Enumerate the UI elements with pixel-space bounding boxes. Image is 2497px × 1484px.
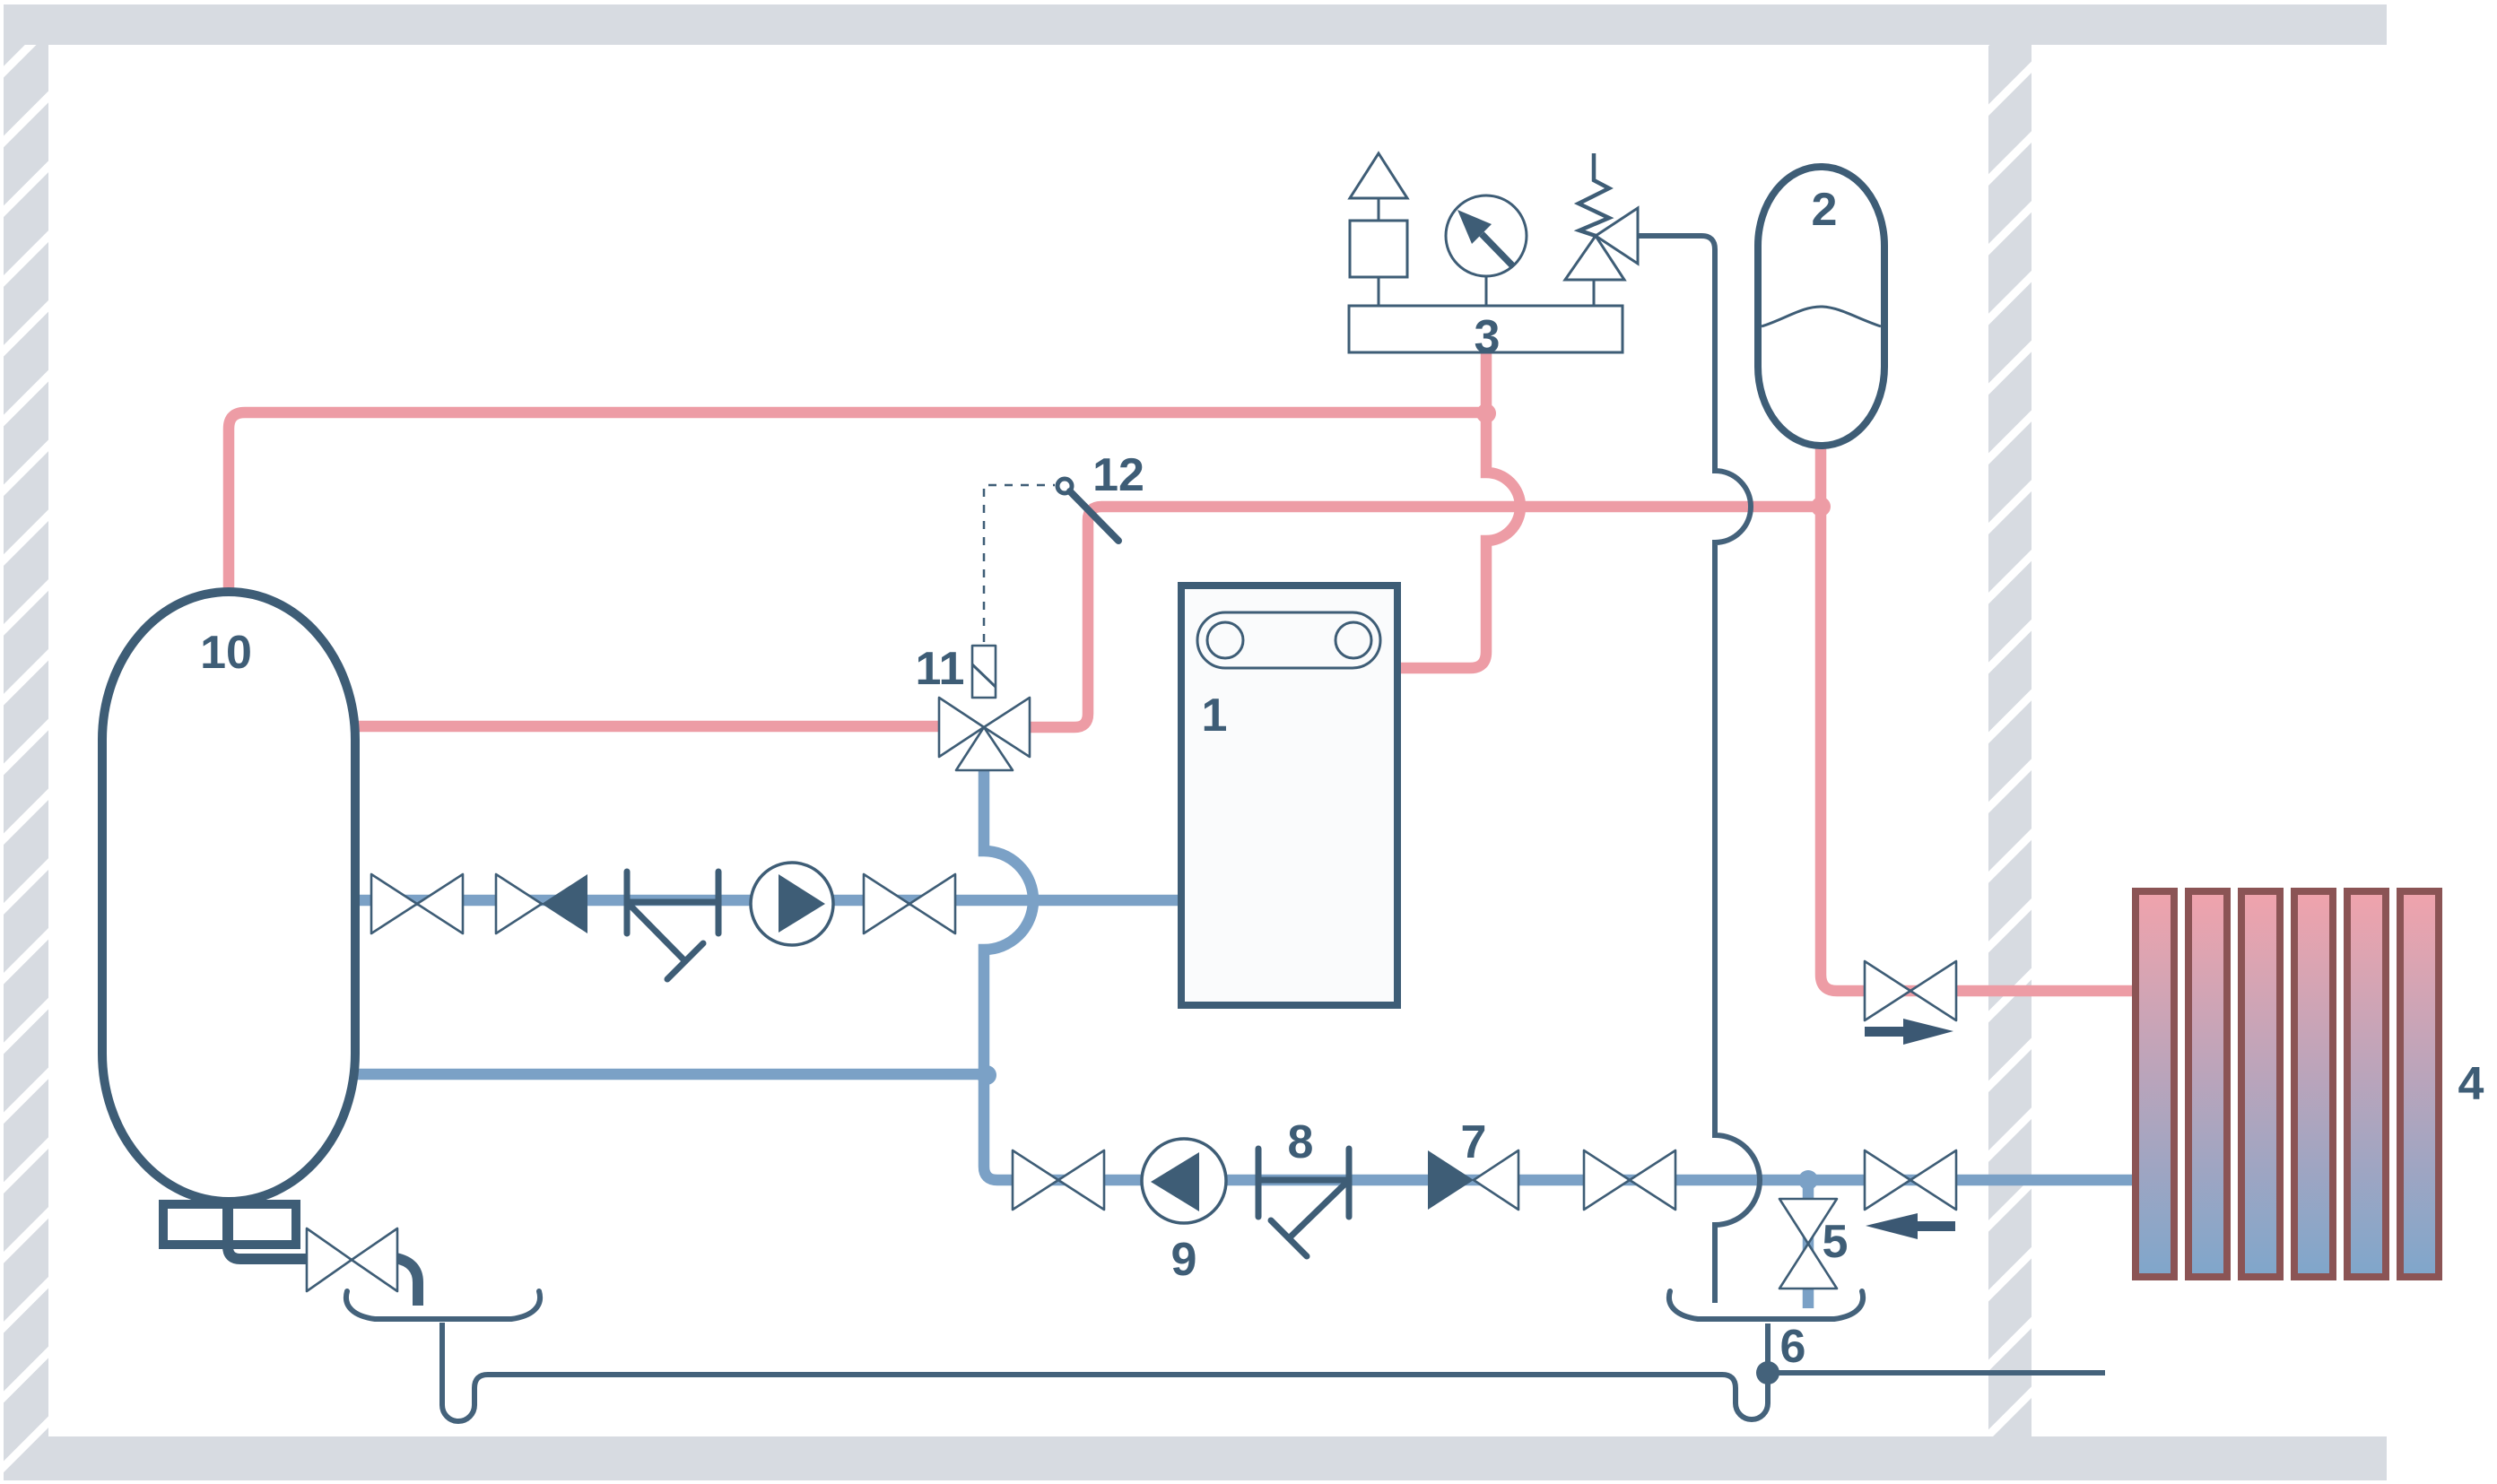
- svg-text:4: 4: [2458, 1058, 2484, 1110]
- svg-text:11: 11: [916, 643, 965, 695]
- svg-text:3: 3: [1475, 311, 1501, 363]
- svg-text:1: 1: [1202, 690, 1228, 742]
- svg-text:7: 7: [1461, 1116, 1487, 1168]
- svg-text:6: 6: [1780, 1321, 1806, 1373]
- svg-text:10: 10: [200, 627, 252, 679]
- svg-text:9: 9: [1171, 1234, 1197, 1286]
- svg-text:2: 2: [1812, 184, 1838, 236]
- svg-text:12: 12: [1092, 449, 1144, 501]
- svg-text:5: 5: [1823, 1216, 1849, 1268]
- svg-text:8: 8: [1288, 1116, 1314, 1168]
